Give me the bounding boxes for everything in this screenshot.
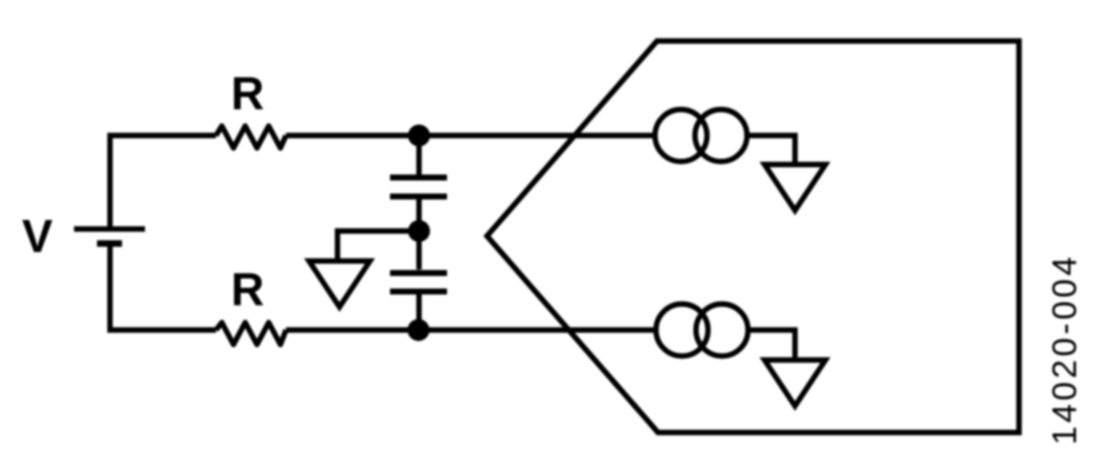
svg-text:R: R: [231, 67, 264, 119]
resistor R2: [216, 323, 286, 345]
svg-text:14020-004: 14020-004: [1046, 254, 1084, 445]
battery V1 long plate: [74, 226, 145, 232]
capacitor C2 plates: [390, 273, 447, 292]
wire middle node to ground: [338, 231, 420, 259]
wire top rail right segment: [286, 133, 655, 138]
node A junction dot top: [408, 125, 430, 147]
ground top right: [765, 165, 826, 211]
capacitor C2 lead bottom: [416, 295, 421, 331]
current source I1 circle right: [695, 110, 747, 162]
capacitor C2 lead top: [416, 231, 421, 270]
node B junction dot middle: [408, 220, 430, 242]
svg-text:R: R: [231, 263, 264, 315]
svg-text:V: V: [22, 210, 53, 262]
wire bottom left vertical and bottom rail left segment: [110, 244, 216, 331]
battery V1 short plate: [97, 240, 122, 247]
wire I2 to ground: [748, 330, 795, 358]
wire I1 to ground: [747, 136, 795, 163]
node C junction dot bottom: [408, 319, 430, 341]
current source I1 circle left: [655, 110, 707, 162]
capacitor C1 lead bottom: [416, 200, 421, 232]
wire bottom rail right segment: [286, 327, 656, 332]
current source I2 circle right: [696, 304, 748, 356]
current source I2 circle left: [656, 304, 708, 356]
resistor R1: [216, 126, 286, 148]
wire top left vertical and top rail left segment: [110, 136, 216, 230]
capacitor C1 plates: [390, 178, 447, 197]
capacitor C1 lead top: [416, 136, 421, 175]
ground middle: [309, 261, 370, 307]
ground bottom right: [765, 360, 826, 406]
ADC input structure U1: [487, 41, 1019, 433]
